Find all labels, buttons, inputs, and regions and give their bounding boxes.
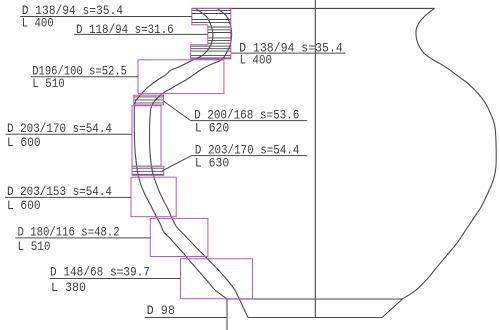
node: rim hatch block C (191, 46, 231, 58)
node: neck band 1 magenta (134, 95, 164, 105)
label D 118/94 leader (74, 33, 208, 35)
wire: vessel axis center line (314, 0, 316, 318)
label D 200/168 leader (191, 120, 308, 122)
node: neck band 2 hatch (132, 168, 163, 174)
label D 148/68 leader (50, 278, 181, 280)
node: vessel outer profile curve right side (402, 8, 496, 299)
node: neck tall zone rectangle (132, 106, 161, 166)
svg-text:D 203/170 s=54.4: D 203/170 s=54.4 (195, 144, 300, 158)
node: zone rectangle D203/153 (131, 177, 176, 217)
wire: rim top line (192, 7, 435, 9)
label D196/100 leader (31, 76, 138, 78)
wire: base extension vertical (226, 299, 228, 330)
node: rim hatch block A (192, 11, 231, 23)
wire: inner base line (227, 298, 403, 300)
svg-text:D 148/68 s=39.7: D 148/68 s=39.7 (50, 266, 150, 280)
label D 98 leader (145, 317, 227, 319)
svg-text:L 380: L 380 (51, 281, 86, 295)
node: neck band 1 hatch (134, 97, 163, 103)
svg-text:D 98: D 98 (147, 304, 175, 318)
svg-text:D 118/94 s=31.6: D 118/94 s=31.6 (76, 23, 174, 37)
label D 138/94 top left leader (20, 16, 192, 18)
node: rim hatch block B (208, 27, 231, 43)
label D 138/94 right leader (231, 52, 345, 54)
node: neck band 2 magenta (132, 166, 164, 175)
svg-text:L 600: L 600 (7, 199, 41, 213)
label D 203/153 leader (5, 196, 131, 198)
svg-text:D 203/170 s=54.4: D 203/170 s=54.4 (7, 122, 112, 136)
label D 203/170 left leader (6, 133, 132, 135)
svg-text:L 630: L 630 (195, 157, 229, 171)
svg-text:L 510: L 510 (32, 77, 65, 91)
svg-text:L 510: L 510 (18, 240, 51, 254)
node: wall outer surface curve (134, 8, 227, 299)
node: zone rectangle D196/100 (138, 60, 224, 94)
node: rim section outline magenta (191, 8, 231, 59)
svg-text:L 400: L 400 (240, 53, 272, 67)
node: zone rectangle D180/116 (150, 218, 208, 256)
label D 180/116 leader (15, 237, 150, 239)
label D 200/168 diagonal leader (164, 101, 191, 120)
node: wall inner surface curve (150, 8, 248, 317)
node: zone rectangle D148/68 (181, 259, 253, 299)
label D 203/170 right leader (192, 155, 308, 157)
svg-text:D 203/153 s=54.4: D 203/153 s=54.4 (7, 185, 112, 199)
svg-text:L 620: L 620 (195, 122, 229, 136)
svg-text:L 600: L 600 (7, 136, 41, 150)
svg-text:L 400: L 400 (22, 17, 54, 31)
wire: base chamfer (382, 299, 403, 318)
wire: outer base line (248, 317, 382, 319)
label D 203/170 right diagonal leader (162, 156, 192, 171)
svg-text:D 180/116 s=48.2: D 180/116 s=48.2 (18, 226, 120, 240)
svg-text:D 200/168 s=53.6: D 200/168 s=53.6 (194, 109, 299, 123)
